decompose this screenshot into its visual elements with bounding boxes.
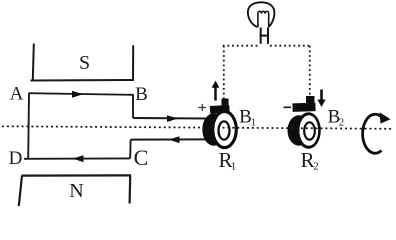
svg-text:N: N [69, 180, 83, 202]
polarity + at brush B1 [198, 104, 206, 111]
coil wire D-C (bottom side) [24, 157, 130, 159]
slip ring R1 (cylinder side) [202, 113, 225, 145]
coil wire C up-bend [129, 140, 131, 159]
svg-text:2: 2 [313, 161, 319, 173]
coil wire B down-bend [132, 94, 134, 118]
brush B2 block [292, 96, 315, 112]
polarity - at brush B2 [284, 106, 292, 108]
lamp base (screw cap) [260, 28, 269, 44]
slip ring R2 (cylinder side) [288, 115, 311, 145]
svg-text:D: D [9, 148, 23, 169]
dotted external circuit: right wire down to brush B2 [309, 46, 311, 96]
current arrow on wire R2-C [169, 136, 180, 143]
svg-text:C: C [134, 145, 149, 170]
dotted external circuit: top wire right of lamp [270, 45, 309, 47]
axis of rotation (dotted line) [2, 126, 393, 129]
lamp bulb globe [248, 2, 275, 27]
svg-text:2: 2 [339, 118, 344, 129]
slip ring R1 (white face) [214, 113, 234, 146]
wire slip ring R2 to C [131, 138, 206, 140]
magnet pole N (bottom magnet bracket) [19, 175, 131, 206]
coil wire A-B (top side) [29, 93, 134, 95]
current arrow on wire D-C [73, 155, 84, 162]
rotation direction arrow [363, 114, 382, 153]
lamp filament [258, 11, 269, 27]
slip ring R1 (outer disc) [211, 110, 238, 149]
coil wire A-D (left side) [27, 93, 30, 158]
current direction up-arrow at B1 [214, 87, 217, 101]
slip ring R1 (inner hole) [219, 121, 230, 139]
current arrow on wire A-B [72, 91, 83, 98]
slip ring R2 (white face) [299, 115, 318, 146]
current arrow on wire B-R1 [167, 115, 178, 122]
brush B1 block [210, 99, 230, 114]
svg-text:A: A [10, 84, 24, 105]
svg-text:1: 1 [231, 161, 237, 173]
slip ring R2 (inner hole) [304, 122, 315, 139]
svg-text:S: S [79, 52, 90, 74]
magnet pole S (top magnet bracket) [31, 44, 135, 81]
current direction down-arrow at B2 [320, 90, 323, 101]
dotted external circuit: top wire left of lamp [223, 45, 259, 47]
svg-text:B: B [135, 84, 148, 105]
dotted external circuit: left wire down to brush B1 [223, 46, 225, 99]
wire B to slip ring R1 [133, 117, 206, 120]
svg-text:1: 1 [251, 118, 256, 129]
slip ring R2 (outer disc) [296, 112, 321, 149]
